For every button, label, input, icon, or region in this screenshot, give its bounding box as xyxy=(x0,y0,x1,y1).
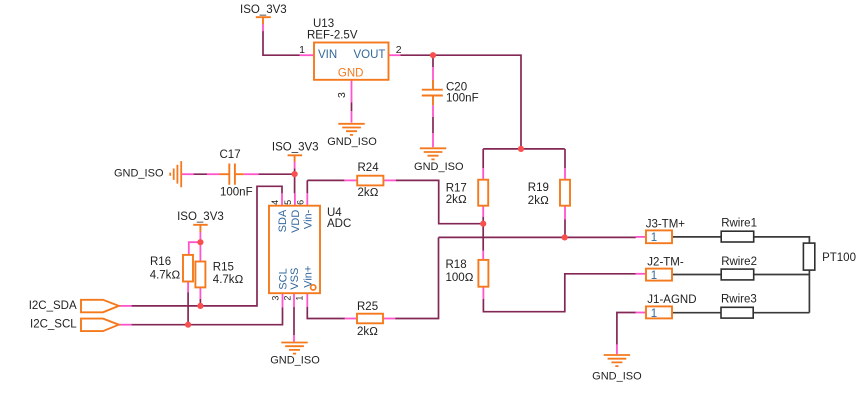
pin R25 left xyxy=(345,318,357,320)
pin J2 xyxy=(636,273,647,275)
connector J2-TM- xyxy=(646,269,672,281)
svg-text:6: 6 xyxy=(295,200,305,205)
pin R18 bottom xyxy=(482,287,484,299)
wire PT100 bottom column xyxy=(808,270,810,313)
wire VOUT to rail xyxy=(400,55,521,149)
pin J3 xyxy=(636,236,647,238)
svg-text:2kΩ: 2kΩ xyxy=(358,187,379,199)
wire R16 bottom column xyxy=(187,292,189,325)
svg-text:Rwire3: Rwire3 xyxy=(721,294,757,306)
junction rail2/R19 xyxy=(562,234,568,240)
pin J1 ground xyxy=(616,344,618,354)
svg-text:R24: R24 xyxy=(358,162,380,174)
pin R19 top xyxy=(564,168,566,180)
junction VDD/ISO_3V3 xyxy=(292,171,298,177)
svg-text:VDD: VDD xyxy=(290,210,302,233)
resistor R19 xyxy=(560,180,570,206)
port I2C_SDA xyxy=(81,300,119,313)
svg-text:Rwire2: Rwire2 xyxy=(721,256,757,268)
svg-text:R16: R16 xyxy=(150,256,171,268)
pin port I2C_SCL xyxy=(119,324,132,326)
svg-text:I2C_SCL: I2C_SCL xyxy=(30,319,77,331)
svg-text:J2-TM-: J2-TM- xyxy=(647,257,684,269)
svg-text:1: 1 xyxy=(651,270,657,282)
pin C20 bottom xyxy=(432,105,434,147)
junction SDA/R15 xyxy=(197,303,203,309)
svg-text:Vin-: Vin- xyxy=(302,209,314,229)
svg-text:J1-AGND: J1-AGND xyxy=(647,294,696,306)
power symbol ISO_3V3 above U4 xyxy=(288,155,303,162)
svg-text:GND: GND xyxy=(338,68,364,80)
svg-text:SDA: SDA xyxy=(277,209,289,232)
junction Vin-/R17/R18 xyxy=(480,221,486,227)
svg-text:PT100: PT100 xyxy=(822,252,856,264)
IC U13 body xyxy=(314,43,389,80)
svg-text:R17: R17 xyxy=(446,183,467,195)
wire Vin- to R24 xyxy=(307,180,344,193)
resistor R24 xyxy=(357,176,383,186)
pin R17 bottom xyxy=(482,206,484,217)
svg-text:GND_ISO: GND_ISO xyxy=(114,168,164,180)
pin U13.3 xyxy=(351,80,353,123)
ground GND_ISO left (rotated) xyxy=(170,161,181,187)
svg-text:3: 3 xyxy=(271,296,281,301)
svg-text:GND_ISO: GND_ISO xyxy=(270,355,320,367)
connector J1-AGND xyxy=(646,306,672,318)
svg-text:U13: U13 xyxy=(313,18,334,30)
wire R18 top column xyxy=(482,224,484,251)
wire U13 pin3 xyxy=(351,103,353,112)
svg-text:3: 3 xyxy=(336,92,348,98)
pin C20 top xyxy=(432,67,434,81)
svg-text:VSS: VSS xyxy=(289,268,301,290)
pin C17 left xyxy=(207,173,220,175)
wire pink dot to R16 top xyxy=(189,242,201,255)
pin power ISO_3V3 mid xyxy=(294,162,296,169)
svg-text:VOUT: VOUT xyxy=(354,49,386,61)
U4 pin1 marker circle xyxy=(311,285,316,290)
ground GND_ISO under C20 xyxy=(420,148,446,159)
wire R18 bottom to J2 xyxy=(483,274,636,312)
svg-text:4.7kΩ: 4.7kΩ xyxy=(213,274,244,286)
pin R17 top xyxy=(482,168,484,180)
resistor Rwire1 xyxy=(721,231,754,242)
resistor R17 xyxy=(478,180,488,206)
junction SCL/R16 xyxy=(185,322,191,328)
pin U4.6 xyxy=(306,193,308,205)
junction R15/R16 power xyxy=(197,239,203,245)
pin U4.3 xyxy=(282,293,284,307)
svg-text:4: 4 xyxy=(270,200,280,205)
wire Vin+ to R25 xyxy=(307,307,345,319)
port I2C_SCL xyxy=(81,319,119,332)
svg-text:Rwire1: Rwire1 xyxy=(721,218,757,230)
wire pink dot to R15 top xyxy=(199,242,201,261)
pin R18 top xyxy=(482,251,484,260)
svg-text:2: 2 xyxy=(282,296,292,301)
pin U4.4 xyxy=(281,193,283,205)
capacitor C20 xyxy=(422,80,443,105)
wire rail2 to J3 xyxy=(439,236,636,238)
svg-text:2: 2 xyxy=(396,44,402,56)
svg-text:SCL: SCL xyxy=(278,268,290,289)
ground GND_ISO under U13 pin3 xyxy=(338,124,364,135)
svg-text:I2C_SDA: I2C_SDA xyxy=(29,300,77,312)
ground GND_ISO under U4 VSS xyxy=(281,343,307,354)
pin U4.1 xyxy=(306,293,308,307)
junction rail top xyxy=(518,146,524,152)
svg-text:100nF: 100nF xyxy=(446,93,479,105)
pin R19 bottom xyxy=(564,206,566,220)
wire ISO_3V3 to U13 VIN xyxy=(263,31,300,56)
wire R17 top column xyxy=(482,149,484,168)
svg-text:100nF: 100nF xyxy=(220,186,253,198)
wire VDD column xyxy=(294,169,296,194)
wire R15 bottom column xyxy=(199,299,201,306)
wire J3 to Rwire1 (black) xyxy=(672,236,721,238)
wire VSS column xyxy=(293,307,295,335)
pin U13.2 xyxy=(389,54,401,56)
power symbol ISO_3V3 top-left xyxy=(256,17,271,24)
svg-text:R18: R18 xyxy=(446,259,467,271)
resistor R15 xyxy=(195,262,205,288)
wire Rwire2 to PT100 column xyxy=(754,274,810,276)
pin port I2C_SDA xyxy=(119,305,132,307)
wire R19 bottom column xyxy=(564,219,566,237)
resistor R18 xyxy=(478,260,488,287)
svg-text:VIN: VIN xyxy=(318,49,337,61)
svg-text:Vin+: Vin+ xyxy=(302,266,314,288)
resistor PT100 xyxy=(803,243,814,270)
svg-text:4.7kΩ: 4.7kΩ xyxy=(150,269,181,281)
svg-text:GND_ISO: GND_ISO xyxy=(327,136,377,148)
pin U13.1 xyxy=(300,54,315,56)
pin R24 right xyxy=(383,179,396,181)
svg-text:C17: C17 xyxy=(220,149,241,161)
svg-text:R19: R19 xyxy=(528,182,549,194)
ground GND_ISO under J1 wire xyxy=(604,355,630,366)
svg-text:C20: C20 xyxy=(446,81,467,93)
pin power ISO_3V3 at R15 xyxy=(199,232,201,242)
pin J1 xyxy=(636,312,647,314)
svg-text:ISO_3V3: ISO_3V3 xyxy=(240,4,287,16)
pin C17 right xyxy=(244,173,259,175)
resistor R25 xyxy=(357,314,383,324)
power symbol ISO_3V3 above R15 xyxy=(193,225,208,232)
svg-text:1: 1 xyxy=(294,296,304,301)
pin R25 right xyxy=(383,318,395,320)
svg-text:R15: R15 xyxy=(213,262,234,274)
junction VOUT/C20 xyxy=(430,52,436,58)
wire rail R17-R19 top xyxy=(483,148,565,150)
pin stub power ISO_3V3 top-left xyxy=(262,24,264,31)
svg-text:1: 1 xyxy=(651,232,657,244)
svg-text:R25: R25 xyxy=(357,301,378,313)
svg-text:100Ω: 100Ω xyxy=(446,272,474,284)
svg-text:2kΩ: 2kΩ xyxy=(357,326,378,338)
wire R25 to rail2 xyxy=(395,237,439,318)
svg-text:ISO_3V3: ISO_3V3 xyxy=(177,211,224,223)
svg-text:2kΩ: 2kΩ xyxy=(446,194,467,206)
wire R19 top column xyxy=(564,149,566,168)
resistor Rwire2 xyxy=(721,269,754,280)
wire SCL net xyxy=(131,307,282,325)
svg-text:J3-TM+: J3-TM+ xyxy=(646,219,686,231)
wire Rwire1 to PT100 top xyxy=(754,237,810,243)
svg-text:1: 1 xyxy=(651,308,657,320)
pin U4.5 xyxy=(294,193,296,205)
pin U4.2 xyxy=(293,293,295,307)
svg-text:GND_ISO: GND_ISO xyxy=(414,161,464,173)
pin R16 bottom xyxy=(187,282,189,293)
pin VSS ground xyxy=(293,335,295,342)
capacitor C17 xyxy=(220,164,244,185)
wire SDA net xyxy=(131,186,282,306)
wire R24 to junction xyxy=(396,180,484,223)
svg-text:U4: U4 xyxy=(327,207,342,219)
pin R15 bottom xyxy=(199,287,201,299)
pin ground left xyxy=(181,173,194,175)
resistor R16 xyxy=(183,255,193,282)
svg-text:5: 5 xyxy=(283,200,293,205)
svg-text:ADC: ADC xyxy=(327,218,351,230)
wire Rwire3 to PT100 column xyxy=(753,312,809,314)
IC U4 body xyxy=(269,206,320,294)
svg-text:1: 1 xyxy=(299,44,305,56)
resistor Rwire3 xyxy=(721,307,753,318)
svg-text:REF-2.5V: REF-2.5V xyxy=(307,29,358,41)
wire R17 bottom column xyxy=(482,217,484,224)
pin R24 left xyxy=(344,179,357,181)
wire C17 run xyxy=(193,173,294,175)
svg-text:2kΩ: 2kΩ xyxy=(528,195,549,207)
wire J2 to Rwire2 (black) xyxy=(672,274,721,276)
svg-text:ISO_3V3: ISO_3V3 xyxy=(272,142,319,154)
svg-text:GND_ISO: GND_ISO xyxy=(592,370,642,382)
wire C20 column xyxy=(432,55,434,133)
wire J1 to ground xyxy=(617,313,636,345)
connector J3-TM+ xyxy=(646,230,672,243)
wire J1 to Rwire3 (black) xyxy=(672,312,721,314)
